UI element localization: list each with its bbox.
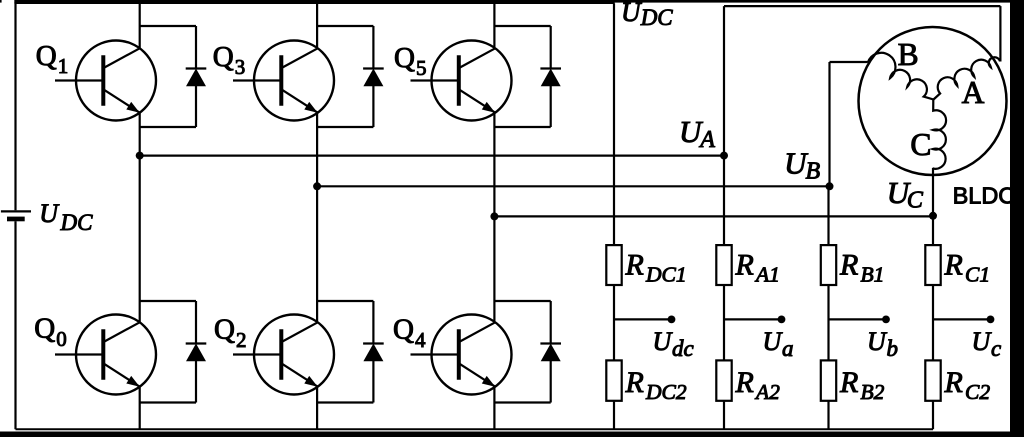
svg-text:U: U	[39, 199, 60, 228]
svg-text:b: b	[887, 336, 899, 361]
svg-text:C: C	[907, 188, 924, 214]
svg-text:R: R	[625, 249, 644, 282]
svg-text:C: C	[910, 127, 931, 162]
svg-text:DC: DC	[60, 210, 94, 235]
svg-text:B2: B2	[861, 380, 885, 404]
svg-text:Q: Q	[36, 40, 57, 72]
svg-text:U: U	[763, 327, 784, 356]
svg-text:R: R	[944, 249, 963, 282]
svg-text:0: 0	[56, 327, 67, 351]
svg-text:C2: C2	[965, 380, 990, 404]
svg-text:5: 5	[416, 56, 427, 80]
svg-text:Q: Q	[214, 314, 235, 346]
svg-text:2: 2	[236, 328, 247, 352]
svg-text:3: 3	[235, 55, 246, 79]
svg-text:R: R	[735, 249, 754, 282]
svg-text:4: 4	[415, 328, 426, 352]
svg-text:BLDC: BLDC	[953, 182, 1016, 208]
svg-text:R: R	[944, 366, 963, 399]
svg-text:B1: B1	[861, 263, 885, 287]
svg-text:1: 1	[58, 54, 68, 78]
svg-text:DC: DC	[640, 5, 674, 30]
svg-text:B: B	[898, 37, 919, 72]
svg-text:a: a	[782, 336, 794, 361]
svg-text:A2: A2	[754, 380, 780, 404]
svg-text:R: R	[839, 249, 858, 282]
svg-text:U: U	[621, 0, 642, 27]
svg-text:c: c	[991, 336, 1001, 361]
svg-text:R: R	[839, 366, 858, 399]
svg-text:U: U	[972, 327, 993, 356]
svg-text:Q: Q	[394, 42, 415, 74]
svg-text:A: A	[698, 127, 715, 153]
svg-text:dc: dc	[672, 336, 694, 361]
svg-text:A: A	[962, 75, 985, 110]
svg-text:Q: Q	[213, 41, 234, 73]
svg-text:U: U	[653, 327, 674, 356]
svg-text:Q: Q	[393, 314, 414, 346]
svg-text:Q: Q	[34, 313, 55, 345]
svg-text:DC1: DC1	[645, 263, 687, 287]
svg-text:C1: C1	[965, 263, 990, 287]
svg-text:A1: A1	[754, 263, 780, 287]
svg-text:DC2: DC2	[645, 380, 687, 404]
svg-text:R: R	[625, 366, 644, 399]
svg-text:B: B	[806, 159, 821, 185]
svg-text:U: U	[867, 327, 888, 356]
svg-text:R: R	[735, 366, 754, 399]
